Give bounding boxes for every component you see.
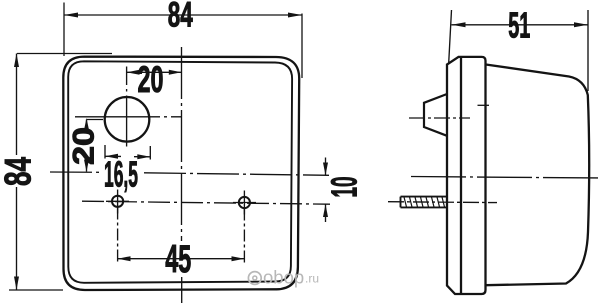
- dim 84 top: extension lines: [64, 3, 302, 79]
- dim 20 left: bottom arrow: [84, 160, 89, 172]
- dim 84 left: line: [16, 54, 18, 291]
- dim 84 top: line: [64, 14, 302, 16]
- dim 45: line: [118, 258, 245, 260]
- svg-text:.ru: .ru: [305, 272, 319, 286]
- stud centerline: [388, 201, 497, 204]
- housing body: [486, 65, 589, 286]
- svg-text:51: 51: [508, 5, 530, 46]
- lens slab outline: [447, 57, 486, 294]
- lamp vertical centerline: [181, 47, 183, 241]
- ring tick: [478, 104, 490, 106]
- circle hole: [105, 97, 150, 142]
- svg-text:20: 20: [68, 127, 101, 165]
- lens/ring joint line: [460, 57, 462, 294]
- mounting hole right: [233, 191, 256, 215]
- dim 51: arrows: [452, 22, 466, 27]
- lamp inner contour: [68, 61, 292, 282]
- dim 16,5: leader lines: [105, 145, 150, 160]
- svg-text:45: 45: [165, 238, 191, 281]
- dim 20 left: line segments: [86, 120, 88, 172]
- circle centerline horizontal: [75, 116, 182, 118]
- dome bump centerline: [409, 117, 470, 119]
- svg-text:obop: obop: [263, 267, 304, 288]
- svg-text:84: 84: [168, 0, 193, 34]
- svg-text:20: 20: [138, 59, 164, 100]
- dim 45: arrows: [118, 256, 131, 261]
- dim 84 left: extension lines: [9, 54, 112, 291]
- watermark logo circle: [248, 272, 261, 285]
- dim 20 top: line: [127, 71, 182, 73]
- dim 20 top: right arrow: [169, 70, 182, 75]
- lamp horizontal centerline: [50, 172, 329, 175]
- dim 16,5: line stubs: [105, 155, 150, 158]
- dim 51: extension lines: [449, 10, 588, 91]
- svg-text:10: 10: [324, 177, 365, 198]
- holes centerline: [82, 201, 330, 204]
- dim 10: line + outside arrows: [325, 158, 327, 223]
- dim 51: line: [452, 24, 589, 26]
- lamp outer contour: [63, 57, 299, 290]
- main axis centerline: [411, 177, 600, 179]
- dim 45: extension dash-dot lines: [117, 208, 119, 264]
- dome bump: [424, 94, 447, 136]
- circle centerline vertical: [126, 67, 128, 147]
- dim 84 left: arrows: [14, 54, 19, 68]
- svg-text:84: 84: [0, 157, 39, 186]
- svg-text:16,5: 16,5: [104, 154, 138, 195]
- dim 84 top: arrows: [64, 13, 78, 18]
- dim 20 top: left arrow: [127, 70, 140, 75]
- mounting hole left: [106, 190, 129, 214]
- dim 20 left: top tick + arrow: [87, 119, 104, 121]
- threaded stud: [401, 197, 448, 208]
- dim 16,5: arrows: [105, 154, 118, 159]
